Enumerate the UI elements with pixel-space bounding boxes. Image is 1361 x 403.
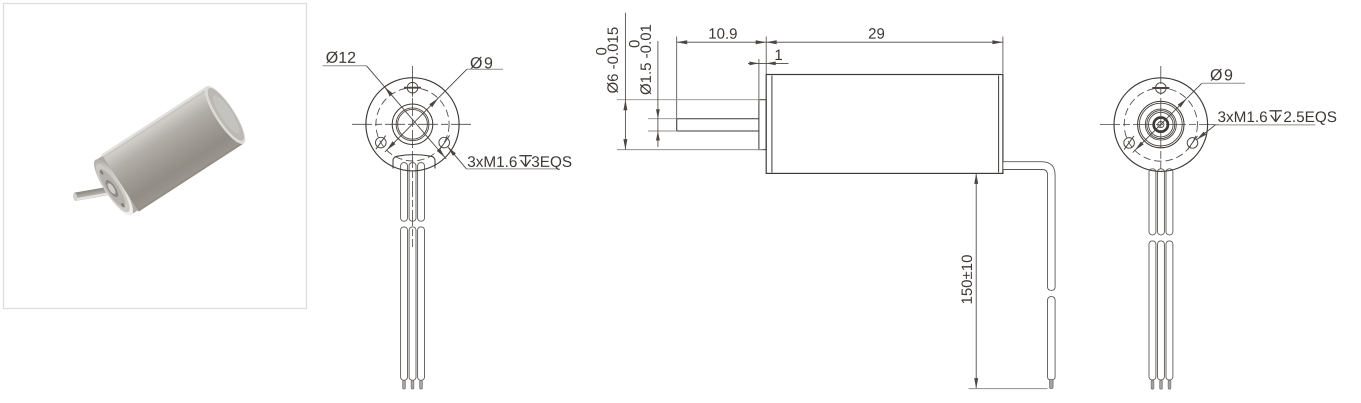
Ø1.5 lower extension line	[648, 130, 677, 132]
side view body rear lip line	[998, 76, 1000, 173]
rear view boss circle inner	[1139, 103, 1182, 146]
front screw hole top	[407, 82, 418, 93]
product photo frame	[4, 4, 307, 309]
Ø1.5 dimension line	[657, 41, 659, 147]
front wire 3 upper segment	[418, 163, 425, 222]
arrow 29 left	[766, 40, 777, 44]
rear wire 1 lower segment	[1149, 241, 1156, 380]
rear wire 3 lower segment	[1166, 241, 1173, 380]
Ø12 label underline	[323, 65, 367, 67]
dimension line 1	[748, 62, 789, 64]
Ø12 leader arrow lower-right	[437, 148, 445, 157]
3xM1.6 leader line (rear)	[1197, 125, 1216, 140]
front screw hole lower-right slash	[440, 135, 450, 149]
Ø9 label underline (front)	[467, 68, 503, 70]
Ø1.5 arrow up (below shaft)	[656, 131, 660, 141]
arrow 10.9 right	[756, 40, 767, 44]
svg-text:Ø6 -0.015: Ø6 -0.015	[605, 27, 622, 94]
rear view bearing ring 1	[1145, 109, 1176, 140]
rear screw hole lower-left slash	[1124, 136, 1134, 150]
svg-text:3xM1.6: 3xM1.6	[1217, 109, 1267, 126]
front screw hole lower-left slash	[376, 136, 386, 150]
front screw hole lower-right	[439, 137, 450, 148]
3xM1.6 leader line (front)	[448, 147, 467, 169]
side view shaft tip edge	[676, 119, 678, 131]
svg-text:Ø9: Ø9	[1210, 67, 1234, 84]
arrow 10.9 left	[677, 40, 688, 44]
side view lead wire upper segment	[1003, 162, 1055, 291]
150±10 label	[959, 255, 976, 305]
svg-text:Ø1.5 -0.01: Ø1.5 -0.01	[638, 24, 655, 95]
rear view bearing ring 3	[1149, 112, 1174, 137]
extension line at shaft tip	[676, 37, 678, 132]
Ø9 label underline (rear)	[1202, 82, 1245, 84]
front wire 1 lower segment	[401, 227, 408, 380]
150±10 arrow down	[974, 378, 978, 389]
rear view outer circle Ø12	[1114, 78, 1208, 172]
rear view shaft center	[1158, 122, 1164, 128]
Ø9 leader line (front)	[385, 69, 467, 152]
svg-text:3xM1.6: 3xM1.6	[467, 154, 517, 171]
Ø1.5 arrow down (above shaft)	[656, 109, 660, 119]
Ø9 leader arrow lower-left (rear)	[1135, 142, 1144, 151]
rear screw hole lower-right	[1187, 138, 1198, 149]
rear screw hole top	[1156, 83, 1167, 94]
front view wire grommet cap	[393, 155, 435, 169]
rear wire 2 lower segment	[1158, 241, 1165, 380]
side view shaft bottom line	[677, 130, 759, 132]
svg-text:2.5EQS: 2.5EQS	[1283, 109, 1337, 126]
Ø6 arrow up	[623, 100, 627, 111]
side view bearing boss	[759, 100, 766, 150]
front view vertical centerline upper	[412, 66, 414, 152]
rear wire 2 upper segment	[1158, 169, 1165, 235]
rear wire 1 upper segment	[1149, 169, 1156, 235]
svg-text:3EQS: 3EQS	[531, 154, 572, 171]
Ø6 upper extension line	[617, 99, 760, 101]
Ø6 dimension line	[624, 13, 626, 150]
arrow 1 right (outside)	[766, 62, 776, 66]
front view boss chamfer ring	[396, 108, 429, 141]
svg-text:0: 0	[593, 47, 610, 55]
Ø9 leader line (rear)	[1133, 83, 1202, 152]
side view motor body outline	[766, 75, 1003, 174]
Ø9 leader arrow lower-left (front)	[387, 141, 396, 150]
rear wire 1 stripped tip	[1151, 380, 1154, 389]
extension line at body front face	[765, 37, 767, 75]
front wire 2 stripped tip	[411, 380, 414, 389]
3xM1.6 label underline (front)	[467, 168, 557, 170]
3xM1.6 label underline (rear)	[1215, 124, 1315, 126]
rear view bolt circle Ø9 (dashed)	[1124, 88, 1197, 161]
front screw hole top crosshair	[404, 87, 421, 89]
150±10 arrow up	[974, 173, 978, 184]
front wire 1 upper segment	[401, 163, 408, 222]
front view vertical centerline lower	[412, 152, 414, 247]
150±10 bottom extension line	[969, 388, 1048, 390]
front wire 2 lower segment	[409, 227, 416, 380]
svg-text:29: 29	[868, 26, 885, 43]
extension line at body rear face	[1002, 37, 1004, 74]
3xM1.6 leader arrow (rear)	[1197, 132, 1207, 140]
front view horizontal centerline	[352, 123, 474, 125]
Ø6 lower extension line	[617, 149, 764, 151]
svg-text:0: 0	[626, 40, 643, 48]
front view shaft boss circle	[392, 104, 433, 145]
Ø12 leader arrow upper-left	[385, 87, 393, 96]
dimension line 10.9 and 29	[677, 41, 1003, 43]
rear wire 3 stripped tip	[1168, 380, 1171, 389]
side view body front lip line	[771, 76, 773, 173]
rear view vertical centerline	[1160, 66, 1162, 186]
Ø6 tolerance label	[593, 27, 621, 94]
rear wire 3 upper segment	[1166, 169, 1173, 235]
front view bore circle	[398, 109, 428, 139]
extension line boss front face	[758, 59, 760, 100]
arrow 29 right	[992, 40, 1003, 44]
rear screw hole lower-right slash	[1188, 136, 1198, 150]
front view bolt circle Ø9 (dashed)	[376, 88, 449, 161]
front wire 3 stripped tip	[420, 380, 423, 389]
front wire 3 lower segment	[418, 227, 425, 380]
rear view boss circle outer	[1138, 101, 1184, 147]
rear view horizontal centerline	[1100, 124, 1222, 126]
rear screw hole lower-left	[1124, 138, 1135, 149]
side view lead wire stripped tip	[1050, 379, 1054, 388]
arrow 1 left (outside)	[749, 62, 759, 66]
Ø12 leader line	[367, 66, 447, 159]
svg-text:1: 1	[774, 47, 782, 64]
front wire 1 stripped tip	[403, 380, 406, 389]
rear screw hole top crossbar	[1152, 87, 1169, 89]
Ø9 leader arrow upper-right (front)	[429, 98, 438, 107]
svg-text:Ø12: Ø12	[326, 50, 356, 67]
side view shaft top line	[677, 118, 759, 120]
front view outer circle Ø12	[366, 78, 459, 171]
svg-text:150±10: 150±10	[959, 255, 976, 305]
Ø1.5 tolerance label	[626, 24, 654, 95]
front screw hole lower-left	[376, 137, 387, 148]
front wire 2 upper segment	[409, 163, 416, 222]
Ø9 leader arrow upper-right (rear)	[1178, 99, 1187, 108]
side view lead wire lower segment	[1048, 297, 1056, 381]
rear view bearing ring 2	[1147, 111, 1175, 139]
rear view shaft end ring (thick)	[1154, 118, 1168, 132]
Ø1.5 upper extension line	[648, 118, 677, 120]
svg-text:10.9: 10.9	[708, 26, 737, 43]
3xM1.6 leader arrow (front)	[448, 147, 456, 156]
Ø6 arrow down	[623, 139, 627, 150]
150±10 dimension line	[975, 173, 977, 388]
rear wire 2 stripped tip	[1160, 380, 1163, 389]
svg-text:Ø9: Ø9	[470, 55, 494, 72]
